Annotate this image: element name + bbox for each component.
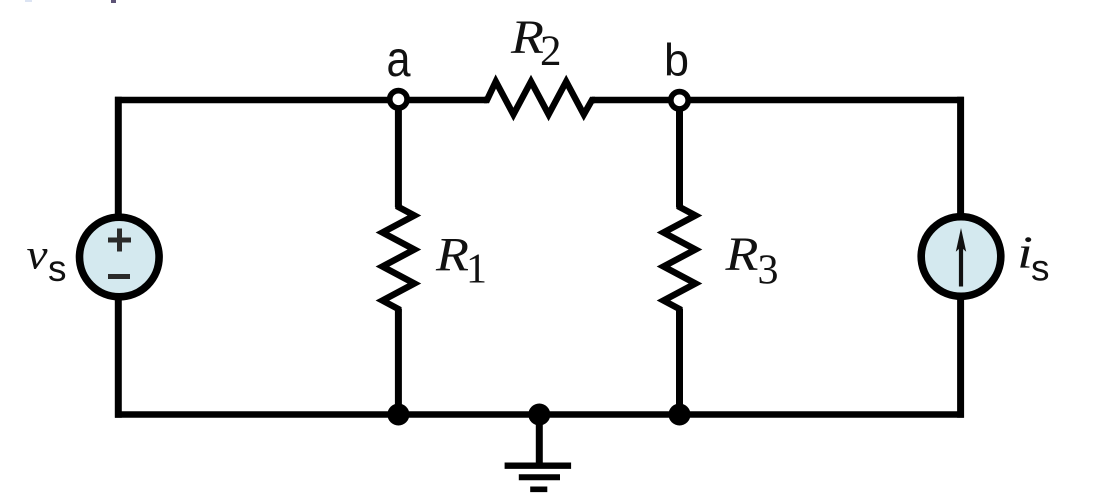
label is [1017, 227, 1050, 289]
node a [390, 91, 407, 108]
label R1 [435, 229, 487, 293]
resistor R1 [382, 204, 414, 312]
wire right rail vertical upper [957, 97, 964, 217]
wire top-left horizontal (left rail to node a) [115, 97, 391, 104]
wire left rail vertical lower [115, 297, 122, 418]
wire node b down to R3 [676, 106, 683, 207]
label b [664, 34, 689, 85]
node b [671, 92, 688, 109]
svg-text:1: 1 [466, 247, 487, 293]
faint cropped-text remnant top edge left [25, 0, 32, 2]
junction dot below R3 [669, 404, 691, 426]
ground [505, 415, 571, 490]
wire R2 to node b [592, 97, 672, 104]
wire node b to top-right corner [688, 97, 964, 104]
junction dot below R1 [387, 404, 409, 426]
wire R3 down to bottom rail [676, 309, 683, 415]
resistor R3 [664, 204, 696, 312]
wire node a down to R1 [395, 106, 402, 207]
junction dot at ground [528, 404, 550, 426]
svg-text:s: s [48, 248, 67, 289]
svg-text:s: s [1031, 247, 1050, 288]
current source is [921, 217, 1001, 297]
svg-text:R: R [724, 228, 758, 281]
resistor R2 [484, 82, 595, 115]
label R2 [510, 11, 562, 75]
svg-text:R: R [435, 229, 469, 282]
svg-text:R: R [510, 11, 544, 64]
label vs [27, 233, 67, 289]
label R3 [724, 228, 778, 294]
svg-text:a: a [387, 31, 411, 87]
svg-text:3: 3 [758, 248, 779, 294]
wire bottom rail [115, 411, 964, 418]
svg-text:b: b [664, 34, 689, 85]
voltage source vs [80, 217, 160, 297]
wire left rail vertical upper [115, 97, 122, 218]
wire right rail vertical lower [957, 296, 964, 418]
label a [387, 31, 411, 87]
wire R1 down to bottom rail [395, 309, 402, 415]
svg-text:2: 2 [540, 28, 562, 75]
wire node a to R2 [407, 97, 487, 104]
svg-text:v: v [27, 233, 48, 279]
faint cropped-text remnant top edge dark dot [111, 0, 116, 3]
